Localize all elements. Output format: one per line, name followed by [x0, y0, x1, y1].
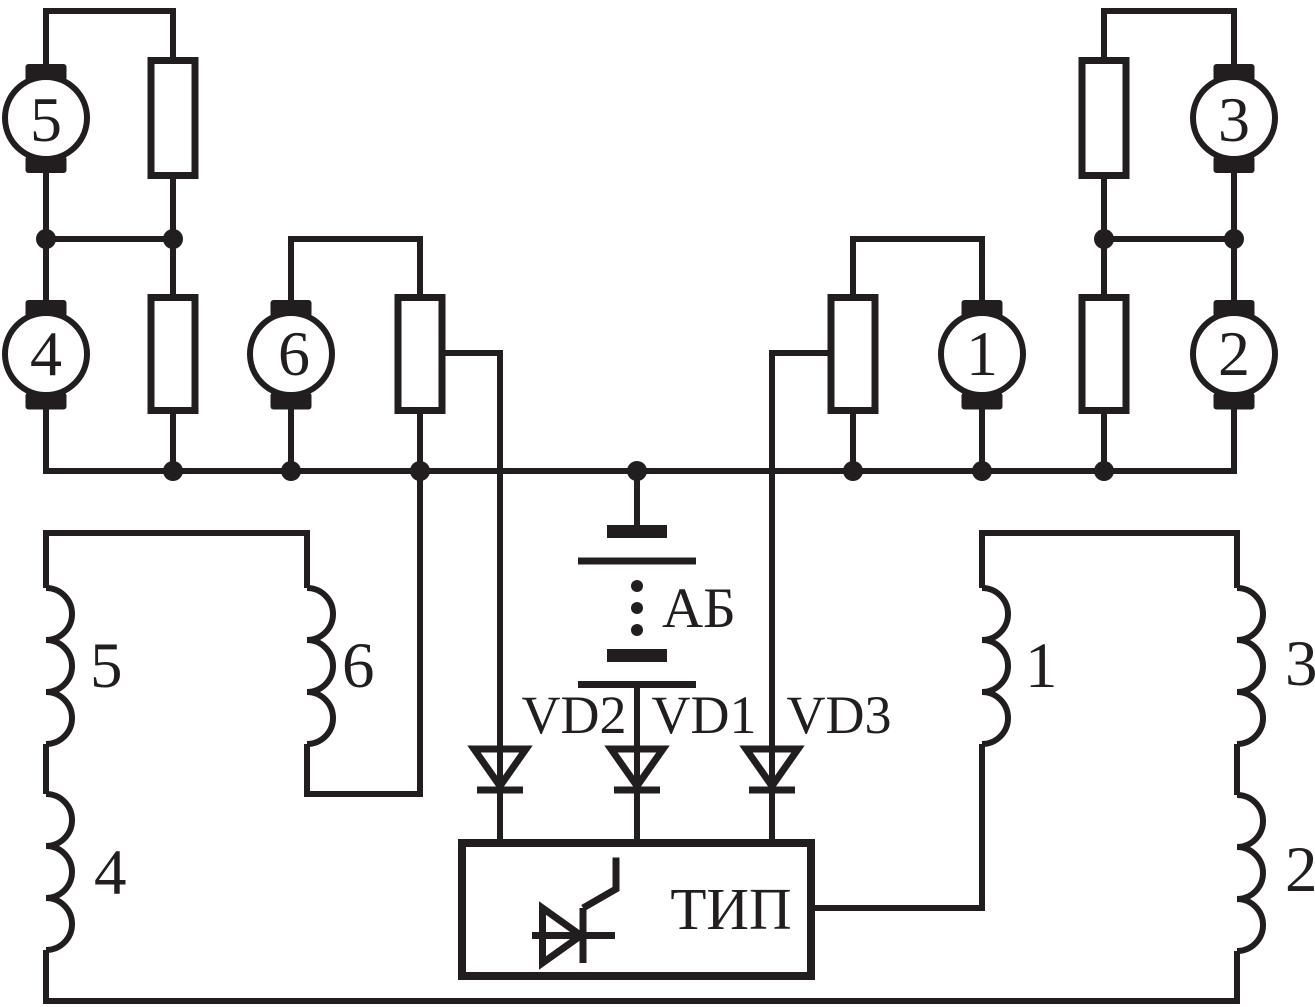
- inductor coil 2: [1237, 795, 1263, 951]
- wire resistor5 to resistor4 vertical: [170, 179, 176, 294]
- wire battery to VD1: [634, 688, 640, 839]
- node junction left row at motor line: [36, 229, 56, 249]
- node bus at resistor2: [1094, 461, 1114, 481]
- resistor parallel to motor 3: [1082, 61, 1126, 176]
- wire tap resistor6 to VD2: [445, 353, 500, 839]
- svg-text:4: 4: [30, 318, 62, 389]
- wire main bus horizontal with end risers: [46, 409, 1234, 471]
- motor 1: [941, 300, 1023, 410]
- node junction right row at resistor line: [1094, 229, 1114, 249]
- wire right coil block top horizontal: [982, 533, 1237, 588]
- wire resistor6 through bus to coil6 bottom: [417, 414, 423, 797]
- node bus at resistor4: [163, 461, 183, 481]
- svg-text:VD1: VD1: [652, 685, 757, 745]
- wire top-left loop motor5/resistor: [46, 11, 173, 64]
- node junction right row at motor line: [1224, 229, 1244, 249]
- wire coil5 to coil4 segment: [43, 744, 49, 794]
- wire top-right loop resistor/motor3: [1104, 11, 1234, 64]
- diode VD3: [746, 749, 798, 790]
- wire left coil block top horizontal: [46, 533, 307, 588]
- resistor parallel to motor 4: [151, 298, 195, 411]
- svg-text:2: 2: [1218, 318, 1250, 389]
- svg-text:4: 4: [94, 837, 127, 909]
- node bus at resistor6: [410, 461, 430, 481]
- diode VD1: [611, 749, 663, 790]
- svg-text:3: 3: [1285, 628, 1315, 700]
- svg-text:2: 2: [1285, 834, 1315, 906]
- svg-text:АБ: АБ: [662, 577, 736, 640]
- wire resistor3 to resistor2 vertical: [1101, 179, 1107, 294]
- resistor parallel to motor 1: [831, 298, 875, 411]
- wire resistor2 to bus: [1101, 414, 1107, 471]
- wire coil6 bottom to resistor6 line: [307, 744, 420, 794]
- motor 5: [5, 64, 87, 173]
- inductor coil 6: [307, 588, 333, 744]
- svg-text:1: 1: [966, 318, 998, 389]
- svg-text:1: 1: [1025, 630, 1058, 702]
- motor 2: [1193, 300, 1275, 410]
- wire motor5 to motor4 vertical: [43, 173, 49, 300]
- svg-text:ТИП: ТИП: [670, 876, 791, 942]
- wire converter output to coil1: [815, 744, 982, 908]
- motor 4: [5, 300, 87, 410]
- thyristor symbol inside TIP: [532, 858, 616, 964]
- resistor parallel to motor 6: [398, 298, 442, 411]
- wire resistor1 to bus: [850, 414, 856, 471]
- inductor coil 3: [1237, 588, 1263, 744]
- wire motor6 to bus: [288, 409, 294, 471]
- wire motor1 group top loop: [853, 239, 982, 300]
- resistor parallel to motor 5: [151, 61, 195, 176]
- motor 6: [250, 300, 332, 410]
- inductor coil 4: [46, 794, 72, 950]
- svg-text:3: 3: [1218, 84, 1250, 155]
- node bus at battery: [627, 461, 647, 481]
- svg-text:5: 5: [90, 630, 123, 702]
- inductor coil 1: [982, 588, 1008, 744]
- wire motor6 group top loop: [291, 239, 420, 300]
- node bus at resistor1: [843, 461, 863, 481]
- wire junction row right horizontal: [1104, 236, 1234, 242]
- wire coil3 to coil2 segment: [1234, 744, 1240, 795]
- resistor parallel to motor 2: [1082, 298, 1126, 411]
- wire junction row left horizontal: [46, 236, 173, 242]
- svg-text:VD3: VD3: [787, 685, 892, 745]
- inductor coil 5: [46, 588, 72, 744]
- node junction left row at resistor line: [163, 229, 183, 249]
- battery AB: [578, 525, 696, 688]
- wire motor3 to motor2 vertical: [1231, 173, 1237, 300]
- svg-text:6: 6: [342, 630, 375, 702]
- svg-text:5: 5: [30, 84, 62, 155]
- node bus at motor6: [281, 461, 301, 481]
- diode VD2: [474, 749, 526, 790]
- wire bus to battery: [634, 471, 640, 525]
- wire resistor4 to bus: [170, 414, 176, 471]
- motor 3: [1193, 64, 1275, 173]
- wire tap resistor1 to VD3: [772, 353, 828, 839]
- svg-text:6: 6: [278, 318, 310, 389]
- node bus at motor1: [972, 461, 992, 481]
- wire motor1 to bus: [979, 409, 985, 471]
- wire coil4 to bottom horizontal to coil2: [46, 950, 1237, 1001]
- svg-text:VD2: VD2: [522, 685, 627, 745]
- converter box TIP: [462, 843, 811, 976]
